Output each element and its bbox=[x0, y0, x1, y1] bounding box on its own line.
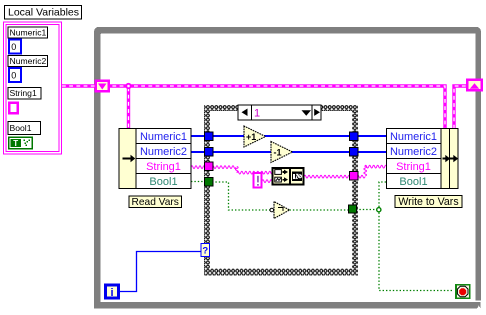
svg-text:Local Variables: Local Variables bbox=[8, 7, 79, 19]
node: right shift register bbox=[467, 80, 482, 91]
label: Numeric2 bbox=[8, 56, 48, 67]
node: numeric constant 0 (second) bbox=[9, 68, 21, 82]
wire: blue iteration wire from i to ? terminal bbox=[119, 252, 202, 292]
node: sequence selector label bbox=[238, 105, 321, 120]
svg-text:1: 1 bbox=[254, 108, 260, 120]
svg-text:Read Vars: Read Vars bbox=[132, 197, 179, 208]
wire: blue numeric wires row 2 bbox=[191, 151, 387, 153]
label: Write to Vars bbox=[395, 196, 462, 209]
node: Local Variables cluster constant frame bbox=[4, 22, 62, 154]
svg-text:String1: String1 bbox=[396, 161, 431, 173]
svg-text:Numeric2: Numeric2 bbox=[10, 56, 47, 66]
node: loop condition terminal (stop if true) bbox=[456, 285, 470, 299]
svg-text:0: 0 bbox=[11, 70, 16, 80]
wire: string wire inside structure to icon bbox=[212, 166, 236, 169]
node: boolean constant true bbox=[9, 137, 32, 148]
sequence/case structure border bbox=[204, 105, 358, 276]
node: string constant ! bbox=[254, 173, 262, 188]
label: Local Variables bbox=[5, 6, 82, 20]
wire: vertical drop to Read Vars unbundle bbox=[127, 86, 130, 129]
svg-text:String1: String1 bbox=[10, 88, 37, 98]
svg-text:Bool1: Bool1 bbox=[399, 176, 427, 188]
svg-text:Bool1: Bool1 bbox=[149, 176, 177, 188]
node: NOT gate bbox=[270, 202, 290, 219]
node: string function icon U1 bbox=[273, 168, 304, 185]
svg-text:Write to Vars: Write to Vars bbox=[398, 196, 458, 208]
node: blue tunnel left 1 bbox=[205, 132, 214, 141]
node: empty string constant bbox=[9, 103, 18, 114]
node: Write to Vars bundle by name bbox=[387, 129, 459, 189]
node: case selector ? terminal bbox=[201, 244, 210, 257]
wire: cluster wire from Local Variables to left shift register and across top bbox=[62, 83, 467, 129]
label: Bool1 bbox=[8, 122, 41, 135]
node: increment +1 function bbox=[244, 126, 266, 147]
wire: string from icon to right tunnel bbox=[304, 175, 350, 178]
node: blue tunnel right 1 bbox=[350, 132, 359, 141]
wire: string from right tunnel to bundle bbox=[357, 175, 365, 178]
node: blue tunnel left 2 bbox=[205, 148, 214, 157]
node: string tunnel left bbox=[205, 162, 214, 171]
svg-text:Numeric1: Numeric1 bbox=[140, 131, 187, 143]
wire: blue numeric wires row 1 bbox=[191, 135, 387, 137]
node: boolean wire junction bbox=[377, 208, 381, 212]
svg-text:Numeric1: Numeric1 bbox=[10, 28, 47, 38]
node: left shift register bbox=[96, 81, 109, 92]
svg-text:-1: -1 bbox=[274, 147, 282, 157]
wire: boolean inside structure through NOT gate bbox=[212, 182, 271, 210]
label: Numeric1 bbox=[8, 27, 48, 38]
svg-text:Numeric2: Numeric2 bbox=[140, 146, 187, 158]
wire: boolean dotted from unbundle to left tunnel bbox=[191, 182, 454, 291]
while loop W1 border bbox=[94, 27, 481, 309]
svg-text:T: T bbox=[13, 139, 18, 148]
svg-text:Numeric2: Numeric2 bbox=[390, 146, 437, 158]
svg-text:?: ? bbox=[202, 246, 208, 257]
svg-text:+1: +1 bbox=[246, 132, 256, 142]
svg-text:i: i bbox=[110, 287, 113, 299]
node: boolean tunnel right bbox=[349, 205, 357, 213]
svg-text:0: 0 bbox=[11, 42, 16, 52]
node: boolean tunnel left bbox=[205, 178, 214, 187]
node: decrement -1 function bbox=[271, 142, 293, 163]
svg-text:String1: String1 bbox=[146, 161, 181, 173]
label: Read Vars bbox=[129, 196, 182, 208]
wire: string from ! constant to icon bbox=[262, 180, 272, 183]
svg-text:Bool1: Bool1 bbox=[10, 123, 32, 133]
node: wire junction on cluster wire bbox=[125, 83, 131, 89]
node: iteration terminal i bbox=[106, 285, 119, 299]
label: String1 bbox=[8, 88, 41, 100]
wire: boolean from right tunnel to junction, to bundle and loop condition bbox=[356, 209, 376, 211]
node: numeric constant 0 (first) bbox=[9, 40, 21, 54]
node: blue tunnel right 2 bbox=[350, 148, 359, 157]
svg-text:Numeric1: Numeric1 bbox=[390, 131, 437, 143]
wire: string wire from unbundle to tunnel bbox=[191, 166, 205, 169]
node: string tunnel right bbox=[350, 172, 359, 181]
node: Read Vars unbundle by name bbox=[119, 129, 191, 189]
